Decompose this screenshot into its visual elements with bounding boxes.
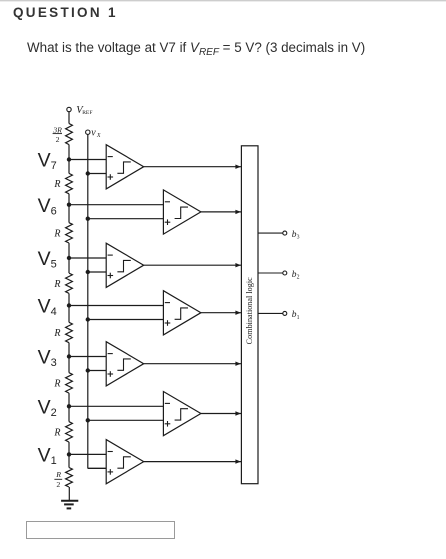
- wire vx bus to comparator plus input: [88, 370, 106, 372]
- svg-text:6: 6: [51, 205, 57, 217]
- terminal b2: [283, 271, 287, 275]
- wire U4 output to logic: [201, 312, 241, 314]
- node V1: [67, 452, 71, 456]
- svg-text:5: 5: [51, 259, 57, 271]
- wire V7 to comparator minus input: [69, 159, 106, 161]
- wire U7 output to logic: [144, 166, 241, 168]
- wire node V5 to resistor: [68, 258, 70, 273]
- svg-text:v: v: [91, 128, 96, 139]
- wire resistor to node V3: [68, 343, 70, 357]
- node V5: [67, 256, 71, 260]
- junction dot vx V7: [86, 171, 90, 175]
- junction dot vx V4: [86, 317, 90, 321]
- svg-text:V: V: [38, 296, 51, 318]
- wire node V7 to resistor: [68, 160, 70, 174]
- svg-text:7: 7: [51, 160, 57, 172]
- wire vx bus to comparator plus input: [88, 419, 164, 421]
- svg-text:V: V: [38, 150, 51, 172]
- arrowhead U7 output: [235, 165, 241, 169]
- svg-text:R: R: [53, 428, 60, 439]
- wire V6 to comparator minus input: [69, 204, 163, 206]
- wire resistor to node V5: [68, 243, 70, 258]
- arrowhead U2 output: [235, 411, 241, 415]
- junction dot vx V2: [86, 418, 90, 422]
- svg-text:2: 2: [51, 407, 57, 419]
- svg-text:R: R: [53, 379, 60, 390]
- wire resistor to node V2: [68, 393, 70, 406]
- op-amp U4 (comparator V4): [163, 291, 201, 335]
- junction dot vx V5: [86, 270, 90, 274]
- svg-text:R: R: [55, 470, 61, 479]
- op-amp U7 (comparator V7): [106, 145, 144, 189]
- node V7: [67, 157, 71, 161]
- svg-text:R: R: [53, 228, 60, 239]
- wire b1 output: [258, 312, 283, 314]
- junction dot vx V6: [86, 217, 90, 221]
- wire node V4 to resistor: [68, 306, 70, 323]
- wire resistor to node V6: [68, 194, 70, 205]
- wire vx bus to comparator plus input: [88, 218, 164, 220]
- node V4: [67, 303, 71, 307]
- wire V1 to comparator minus input: [69, 453, 106, 455]
- svg-text:R: R: [53, 328, 60, 339]
- svg-text:2: 2: [297, 275, 300, 281]
- wire U6 output to logic: [201, 211, 241, 213]
- svg-text:V: V: [38, 195, 51, 217]
- svg-text:REF: REF: [82, 110, 92, 116]
- svg-text:R: R: [53, 179, 60, 190]
- svg-text:X: X: [96, 133, 101, 139]
- wire resistor 3R/2 to node V7: [68, 145, 70, 160]
- wire U3 output to logic: [144, 363, 241, 365]
- op-amp U1 (comparator V1): [106, 440, 144, 484]
- op-amp U3 (comparator V3): [106, 342, 144, 386]
- resistor R (V7-V6): [66, 173, 73, 193]
- arrowhead U3 output: [235, 362, 241, 366]
- wire node V6 to resistor: [68, 205, 70, 223]
- arrowhead U6 output: [235, 210, 241, 214]
- wire b2 output: [258, 272, 283, 274]
- svg-text:R: R: [53, 279, 60, 290]
- svg-text:Combinational logic: Combinational logic: [245, 277, 254, 344]
- resistor R/2: [66, 468, 73, 488]
- wire V4 to comparator minus input: [69, 305, 163, 307]
- wire U1 output to logic: [144, 461, 241, 463]
- svg-text:2: 2: [56, 135, 60, 144]
- wire resistor to node V4: [68, 293, 70, 305]
- wire U2 output to logic: [201, 413, 241, 415]
- wire vx bus to comparator plus input: [88, 467, 106, 469]
- arrowhead U1 output: [235, 459, 241, 463]
- node V2: [67, 404, 71, 408]
- wire resistor R/2 to ground: [68, 487, 70, 501]
- combinational logic block: [241, 146, 258, 484]
- answer input box: [26, 521, 175, 540]
- op-amp U5 (comparator V5): [106, 243, 144, 287]
- wire V3 to comparator minus input: [69, 356, 106, 358]
- svg-text:V: V: [38, 397, 51, 419]
- wire VREF to resistor 3R/2: [68, 112, 70, 124]
- svg-text:4: 4: [51, 306, 57, 318]
- junction dot vx V3: [86, 368, 90, 372]
- arrowhead U5 output: [235, 263, 241, 267]
- wire vx vertical bus: [87, 134, 89, 468]
- terminal VREF: [67, 107, 71, 111]
- op-amp U2 (comparator V2): [163, 392, 201, 436]
- wire node V1 to resistor R/2: [68, 454, 70, 467]
- svg-text:2: 2: [56, 480, 60, 489]
- wire resistor to node V1: [68, 442, 70, 454]
- svg-text:3: 3: [297, 235, 300, 241]
- svg-text:V: V: [38, 248, 51, 270]
- wire b3 output: [258, 232, 283, 234]
- svg-text:1: 1: [51, 455, 57, 467]
- arrowhead U4 output: [235, 311, 241, 315]
- wire U5 output to logic: [144, 264, 241, 266]
- terminal b1: [283, 311, 287, 315]
- resistor R (V2-V1): [66, 422, 73, 442]
- wire node V3 to resistor: [68, 357, 70, 373]
- wire vx bus to comparator plus input: [88, 271, 106, 273]
- resistor 3R/2: [66, 124, 73, 145]
- wire V2 to comparator minus input: [69, 405, 163, 407]
- ground: [61, 500, 78, 502]
- svg-text:V: V: [38, 445, 51, 467]
- wire vx bus to comparator plus input: [88, 319, 164, 321]
- wire V5 to comparator minus input: [69, 257, 106, 259]
- resistor R (V3-V2): [66, 373, 73, 393]
- svg-text:3: 3: [51, 357, 57, 369]
- op-amp U6 (comparator V6): [163, 190, 201, 234]
- resistor R (V6-V5): [66, 223, 73, 243]
- terminal vx: [86, 130, 90, 134]
- svg-text:V: V: [38, 347, 51, 369]
- terminal b3: [283, 231, 287, 235]
- resistor R (V5-V4): [66, 273, 73, 293]
- node V6: [67, 203, 71, 207]
- node V3: [67, 354, 71, 358]
- svg-text:1: 1: [297, 315, 300, 321]
- resistor R (V4-V3): [66, 322, 73, 342]
- wire node V2 to resistor: [68, 406, 70, 421]
- wire vx bus to comparator plus input: [88, 173, 106, 175]
